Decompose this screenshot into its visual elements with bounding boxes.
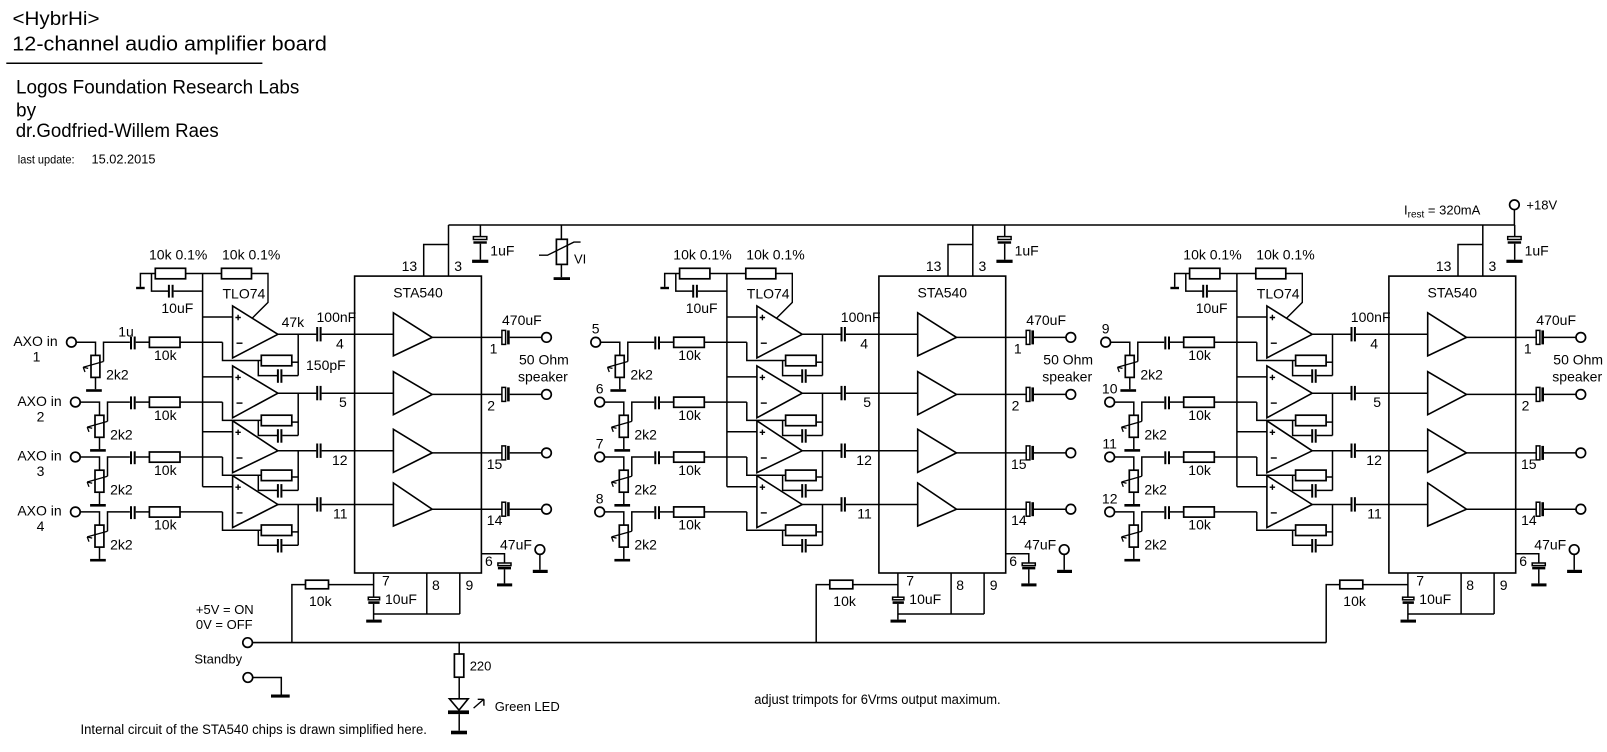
svg-text:11: 11	[1367, 506, 1382, 522]
output terminal 10	[1576, 390, 1586, 400]
svg-text:VI: VI	[574, 252, 586, 267]
op-amp 2 minus marker	[237, 402, 243, 404]
ground for trimpot channel 9	[1120, 389, 1136, 392]
svg-text:8: 8	[596, 490, 604, 506]
wire 47k to output node op-amp 2	[292, 421, 298, 423]
svg-text:4: 4	[1370, 335, 1378, 351]
bias bus wire block 2	[726, 274, 728, 487]
svg-text:10uF: 10uF	[686, 300, 718, 316]
wire 10k to inverting input channel 1	[180, 341, 223, 343]
svg-text:10uF: 10uF	[161, 300, 193, 316]
wire STA540 output 10	[1467, 393, 1537, 395]
output terminal 1	[542, 333, 552, 343]
wire noninverting input op-amp 8	[727, 486, 757, 488]
svg-text:10k 0.1%: 10k 0.1%	[1183, 247, 1241, 263]
wire 100nF to STA540 input 2	[322, 392, 394, 394]
wire input 9 to trimpot	[1111, 342, 1130, 355]
op-amp 3 minus marker	[237, 457, 243, 459]
svg-text:100nF: 100nF	[841, 309, 881, 325]
input terminal 7	[595, 452, 605, 462]
capacitor 1uF rail block 3	[1508, 225, 1521, 260]
wire 470uF to output terminal 10	[1544, 393, 1576, 395]
capacitor 10uF pin7 block 3	[1403, 597, 1414, 619]
op-amp 4 triangle	[233, 476, 278, 528]
ground for 47uF block 1	[497, 583, 512, 586]
wire trimpot wiper channel 10	[1142, 402, 1164, 421]
STA540 internal amp 2 triangle	[393, 372, 432, 415]
op-amp 1 minus marker	[237, 342, 243, 344]
svg-text:1: 1	[33, 348, 41, 364]
wire feedback vertical op-amp 4	[297, 505, 299, 546]
svg-text:10k: 10k	[1343, 593, 1367, 609]
wire op-amp 7 output to 100nF	[802, 450, 841, 452]
wire noninverting input op-amp 5	[727, 316, 757, 318]
input terminal 4	[71, 507, 81, 517]
wire 1u to 10k channel 5	[660, 341, 674, 343]
wire input 1 to trimpot	[77, 342, 96, 355]
wire noninverting input op-amp 6	[727, 376, 757, 378]
svg-text:10k: 10k	[678, 462, 702, 478]
output terminal 7	[1066, 448, 1076, 458]
capacitor 10uF pin7 block 2	[893, 597, 904, 619]
svg-text:10k: 10k	[1188, 407, 1212, 423]
output terminal 8	[1066, 504, 1076, 514]
op-amp 5 minus marker	[761, 342, 767, 344]
wire 470uF to output terminal 12	[1544, 508, 1576, 510]
svg-text:50 Ohm: 50 Ohm	[1043, 352, 1093, 368]
wire 10k to inverting input channel 12	[1214, 511, 1257, 513]
wire 10k B to op-amp 1 noninverting block 2	[776, 274, 793, 319]
ground tick for bias divider block 3	[1170, 287, 1179, 289]
wire 1u to 10k channel 2	[136, 401, 150, 403]
resistor 10k input channel 7	[674, 452, 705, 462]
wire 100nF to STA540 input 6	[846, 392, 918, 394]
op-amp 7 minus marker	[761, 457, 767, 459]
input terminal 12	[1105, 507, 1115, 517]
svg-text:13: 13	[402, 258, 418, 274]
speaker return terminal block 3	[1569, 545, 1579, 555]
svg-text:6: 6	[485, 553, 493, 569]
resistor 10k input channel 3	[149, 452, 180, 462]
svg-text:470uF: 470uF	[1026, 312, 1066, 328]
trimpot 2k2 channel 9	[1118, 355, 1138, 389]
STA540 internal amp 1 triangle	[393, 313, 432, 356]
output terminal 12	[1576, 504, 1586, 514]
capacitor 470uF output 5	[1026, 330, 1034, 344]
capacitor 150pF feedback op-amp 2	[258, 420, 298, 442]
STA540 internal amp 4 triangle	[393, 483, 432, 526]
ground for LED	[451, 731, 467, 735]
resistor 10k standby block 1	[306, 580, 329, 589]
ground for 1uF rail block 3	[1506, 260, 1522, 263]
wire 10k to inverting input channel 6	[704, 401, 747, 403]
wire noninverting input op-amp 7	[727, 431, 757, 433]
svg-text:Green LED: Green LED	[495, 699, 560, 714]
ground tick for bias divider block 2	[660, 287, 669, 289]
wire trimpot wiper channel 11	[1142, 457, 1164, 476]
svg-text:4: 4	[860, 335, 868, 351]
svg-text:150pF: 150pF	[306, 357, 346, 373]
svg-text:47k: 47k	[282, 314, 306, 330]
wire 100nF to STA540 input 10	[1356, 392, 1428, 394]
wire inverting jog channel 11	[1257, 457, 1296, 475]
wire feedback vertical op-amp 8	[822, 505, 824, 546]
svg-text:2k2: 2k2	[634, 427, 657, 443]
wire trimpot wiper channel 6	[632, 402, 654, 421]
bias bus wire block 3	[1236, 274, 1238, 487]
svg-text:TLO74: TLO74	[747, 286, 790, 302]
resistor 47k feedback op-amp 9	[1296, 355, 1327, 366]
resistor 10k standby block 2	[830, 580, 853, 589]
svg-text:10uF: 10uF	[909, 591, 941, 607]
capacitor 1u channel 4	[131, 506, 135, 519]
svg-text:STA540: STA540	[1428, 285, 1478, 301]
svg-text:speaker: speaker	[1552, 369, 1602, 385]
capacitor 100nF channel 8	[842, 497, 845, 511]
STA540 internal amp 12 triangle	[1428, 483, 1467, 526]
STA540 internal amp 5 triangle	[918, 313, 957, 356]
svg-text:2k2: 2k2	[634, 536, 657, 552]
wire 1u to 10k channel 7	[660, 456, 674, 458]
wire feedback vertical op-amp 7	[822, 451, 824, 491]
wire input 2 to trimpot	[81, 402, 100, 415]
svg-text:2k2: 2k2	[634, 482, 657, 498]
wire feedback vertical op-amp 2	[297, 393, 299, 435]
resistor R 10k 0.1% A block 2	[680, 268, 710, 279]
capacitor 150pF feedback op-amp 10	[1293, 420, 1333, 442]
svg-text:470uF: 470uF	[1536, 312, 1576, 328]
svg-text:5: 5	[1373, 394, 1381, 410]
wire 10k to inverting input channel 8	[704, 511, 747, 513]
op-amp 3 plus marker	[235, 430, 240, 435]
svg-text:AXO in: AXO in	[13, 333, 57, 349]
trimpot 2k2 channel 12	[1122, 525, 1142, 559]
resistor R 10k 0.1% A block 1	[155, 268, 185, 279]
ground for 47uF block 2	[1021, 583, 1036, 586]
wire input 4 to trimpot	[81, 512, 100, 525]
op-amp 11 minus marker	[1271, 457, 1277, 459]
wire 47k to output node op-amp 7	[816, 476, 822, 478]
op-amp 11 plus marker	[1270, 430, 1275, 435]
wire 10k standby to standby rail block 3	[1326, 585, 1340, 643]
wire 10k B to op-amp 1 noninverting block 3	[1286, 274, 1303, 319]
wire feedback vertical op-amp 5	[822, 334, 824, 375]
STA540 internal amp 6 triangle	[918, 372, 957, 415]
svg-text:10k 0.1%: 10k 0.1%	[1256, 247, 1314, 263]
wire op-amp 3 output to 100nF	[278, 450, 317, 452]
wire STA540 output 4	[432, 508, 502, 510]
capacitor 150pF feedback op-amp 3	[258, 475, 298, 497]
svg-text:14: 14	[1521, 512, 1537, 528]
wire trimpot wiper channel 5	[628, 342, 654, 361]
pin 3 wire block 3	[1482, 225, 1484, 276]
svg-text:STA540: STA540	[393, 285, 443, 301]
wire 1u to 10k channel 8	[660, 511, 674, 513]
capacitor 470uF output 12	[1536, 502, 1544, 516]
wire feedback vertical op-amp 1	[297, 334, 299, 375]
wire 100nF to STA540 input 4	[322, 504, 394, 506]
op-amp 2 plus marker	[235, 375, 240, 380]
ground for 47uF block 3	[1531, 583, 1546, 586]
op-amp 10 triangle	[1267, 366, 1312, 418]
op-amp 10 plus marker	[1270, 375, 1275, 380]
wire 1u to 10k channel 3	[136, 456, 150, 458]
resistor 47k feedback op-amp 8	[786, 525, 817, 536]
ground tick for bias divider block 1	[136, 287, 145, 289]
ground for trimpot channel 7	[614, 504, 630, 507]
svg-text:7: 7	[1416, 573, 1424, 589]
wire trimpot wiper channel 1	[104, 342, 130, 361]
wire 470uF to output terminal 2	[510, 393, 542, 395]
svg-text:TLO74: TLO74	[1257, 286, 1300, 302]
op-amp 3 triangle	[233, 421, 278, 473]
ground for speaker return block 3	[1567, 570, 1582, 573]
trimpot 2k2 channel 2	[87, 415, 107, 449]
wire input 5 to trimpot	[601, 342, 620, 355]
wire 10k to inverting input channel 11	[1214, 456, 1257, 458]
resistor 10k standby block 3	[1340, 580, 1363, 589]
capacitor 100nF channel 9	[1352, 327, 1355, 341]
wire 1u to 10k channel 11	[1170, 456, 1184, 458]
svg-text:5: 5	[339, 394, 347, 410]
resistor 47k feedback op-amp 12	[1296, 525, 1327, 536]
ground for 10uF pin7 block 3	[1401, 620, 1417, 623]
capacitor 470uF output 3	[502, 446, 510, 460]
svg-text:7: 7	[906, 573, 914, 589]
capacitor 100nF channel 1	[317, 327, 320, 341]
svg-text:3: 3	[1489, 258, 1497, 274]
pin 9 wire block 2	[983, 573, 985, 614]
standby input terminal	[243, 638, 253, 648]
svg-text:12: 12	[1102, 490, 1118, 506]
capacitor 150pF feedback op-amp 9	[1293, 361, 1333, 383]
wire LED to ground	[458, 714, 460, 731]
trimpot 2k2 channel 3	[87, 470, 107, 504]
wire 10k B to op-amp 1 noninverting block 1	[252, 274, 269, 319]
svg-text:15: 15	[1011, 456, 1027, 472]
op-amp 8 triangle	[757, 476, 802, 528]
speaker return terminal block 2	[1059, 545, 1069, 555]
wire 10k standby to standby rail block 1	[292, 585, 306, 643]
wire bias divider ground hook block 1	[140, 274, 155, 287]
resistor 10k input channel 8	[674, 507, 705, 517]
wire inverting jog channel 1	[223, 342, 262, 360]
STA540 internal amp 9 triangle	[1428, 313, 1467, 356]
capacitor 1u channel 2	[131, 396, 135, 409]
op-amp 6 minus marker	[761, 402, 767, 404]
svg-text:2k2: 2k2	[110, 536, 133, 552]
svg-text:2k2: 2k2	[1144, 536, 1167, 552]
svg-text:10uF: 10uF	[1196, 300, 1228, 316]
wire input 12 to trimpot	[1115, 512, 1134, 525]
wire inverting jog channel 3	[223, 457, 262, 475]
resistor 10k input channel 6	[674, 397, 705, 407]
svg-text:10k: 10k	[154, 347, 178, 363]
svg-text:11: 11	[1102, 436, 1117, 452]
trimpot 2k2 channel 1	[83, 355, 103, 389]
output terminal 2	[542, 390, 552, 400]
capacitor 47uF block 1	[498, 563, 511, 583]
wire op-amp 5 output to 100nF	[802, 333, 841, 335]
wire op-amp 9 output to 100nF	[1312, 333, 1351, 335]
wire 47k to output node op-amp 12	[1326, 531, 1332, 533]
op-amp 12 triangle	[1267, 476, 1312, 528]
op-amp 12 plus marker	[1270, 485, 1275, 490]
svg-text:8: 8	[956, 577, 964, 593]
wire 1u to 10k channel 12	[1170, 511, 1184, 513]
LED D1 Green	[448, 699, 469, 714]
svg-text:15.02.2015: 15.02.2015	[92, 152, 156, 166]
svg-text:by: by	[16, 101, 37, 122]
input terminal 2	[71, 397, 81, 407]
STA540 internal amp 10 triangle	[1428, 372, 1467, 415]
wire STA540 output 7	[957, 452, 1027, 454]
svg-text:12: 12	[332, 452, 348, 468]
wire op-amp 11 output to 100nF	[1312, 450, 1351, 452]
wire 10k to inverting input channel 9	[1214, 341, 1257, 343]
output terminal 9	[1576, 333, 1586, 343]
svg-text:14: 14	[487, 512, 503, 528]
wire inverting jog channel 5	[747, 342, 786, 360]
wire trimpot wiper channel 2	[108, 402, 130, 421]
input terminal 6	[595, 397, 605, 407]
svg-text:dr.Godfried-Willem Raes: dr.Godfried-Willem Raes	[16, 121, 219, 142]
resistor R 10k 0.1% B block 3	[1256, 268, 1286, 279]
op-amp 4 minus marker	[237, 512, 243, 514]
capacitor 100nF channel 7	[842, 444, 845, 458]
capacitor 150pF feedback op-amp 12	[1293, 530, 1333, 552]
wire inverting jog channel 9	[1257, 342, 1296, 360]
ground for trimpot channel 8	[614, 559, 630, 562]
capacitor 47uF block 3	[1532, 563, 1545, 583]
wire op-amp 10 output to 100nF	[1312, 392, 1351, 394]
wire 100nF to STA540 input 12	[1356, 504, 1428, 506]
wire 470uF to output terminal 9	[1544, 336, 1576, 338]
svg-text:2k2: 2k2	[110, 427, 133, 443]
input terminal 9	[1101, 337, 1111, 347]
capacitor 470uF output 10	[1536, 387, 1544, 401]
svg-text:adjust trimpots for 6Vrms outp: adjust trimpots for 6Vrms output maximum…	[754, 692, 1000, 707]
capacitor 1u channel 7	[655, 451, 659, 464]
resistor 220	[454, 654, 463, 677]
trimpot 2k2 channel 7	[612, 470, 632, 504]
wire 47k to output node op-amp 9	[1326, 361, 1332, 363]
wire 10k standby to pin 7 block 3	[1363, 584, 1408, 586]
wire input 7 to trimpot	[605, 457, 624, 470]
svg-text:12-channel audio amplifier boa: 12-channel audio amplifier board	[12, 33, 327, 55]
wire trimpot wiper channel 12	[1142, 512, 1164, 531]
wire 47k to output node op-amp 5	[816, 361, 822, 363]
resistor 10k input channel 10	[1184, 397, 1215, 407]
svg-text:3: 3	[454, 258, 462, 274]
resistor R 10k 0.1% B block 1	[222, 268, 252, 279]
capacitor 150pF feedback op-amp 11	[1293, 475, 1333, 497]
capacitor 1u channel 11	[1165, 451, 1169, 464]
wire feedback vertical op-amp 12	[1332, 505, 1334, 546]
capacitor 150pF feedback op-amp 7	[783, 475, 823, 497]
wire op-amp 12 output to 100nF	[1312, 504, 1351, 506]
trimpot 2k2 channel 11	[1122, 470, 1142, 504]
capacitor 150pF feedback op-amp 8	[783, 530, 823, 552]
resistor 47k feedback op-amp 6	[786, 415, 817, 426]
wire standby ground terminal	[253, 678, 281, 695]
resistor 47k feedback op-amp 3	[261, 470, 292, 481]
wire 470uF to output terminal 7	[1034, 452, 1066, 454]
resistor 47k feedback op-amp 10	[1296, 415, 1327, 426]
ground for 1uF rail block 1	[472, 260, 488, 263]
resistor 10k input channel 1	[149, 337, 180, 347]
capacitor 100nF channel 10	[1352, 386, 1355, 400]
capacitor 1uF rail block 2	[998, 225, 1011, 260]
wire inverting jog channel 7	[747, 457, 786, 475]
wire 10k to inverting input channel 2	[180, 401, 223, 403]
resistor 10k input channel 5	[674, 337, 705, 347]
svg-text:11: 11	[857, 506, 872, 522]
op-amp 8 minus marker	[761, 512, 767, 514]
capacitor 100nF channel 4	[317, 497, 320, 511]
svg-text:10: 10	[1102, 381, 1118, 397]
capacitor 100nF channel 6	[842, 386, 845, 400]
wire STA540 output 8	[957, 508, 1027, 510]
wire input 10 to trimpot	[1115, 402, 1134, 415]
svg-text:2: 2	[37, 408, 45, 424]
pin 6 wire block 3	[1516, 554, 1539, 563]
wire divider node block 2	[710, 273, 746, 275]
output terminal 5	[1066, 333, 1076, 343]
svg-text:12: 12	[1366, 452, 1382, 468]
wire STA540 output 12	[1467, 508, 1537, 510]
capacitor 470uF output 4	[502, 502, 510, 516]
op-amp 7 triangle	[757, 421, 802, 473]
svg-text:2k2: 2k2	[110, 482, 133, 498]
svg-text:15: 15	[487, 456, 503, 472]
pin 9 wire block 3	[1493, 573, 1495, 614]
ground for trimpot channel 12	[1124, 559, 1140, 562]
input terminal 8	[595, 507, 605, 517]
wire STA540 output 3	[432, 452, 502, 454]
wire noninverting input op-amp 10	[1237, 376, 1267, 378]
STA540 internal amp 3 triangle	[393, 429, 432, 472]
wire STA540 output 1	[432, 336, 502, 338]
capacitor 100nF channel 3	[317, 444, 320, 458]
op-amp 8 plus marker	[760, 485, 765, 490]
wire input 3 to trimpot	[81, 457, 100, 470]
op-amp 5 triangle	[757, 306, 802, 358]
ground for varistor VI	[554, 277, 570, 280]
wire op-amp 4 output to 100nF	[278, 504, 317, 506]
wire noninverting input op-amp 2	[203, 376, 233, 378]
capacitor 470uF output 9	[1536, 330, 1544, 344]
wire STA540 output 11	[1467, 452, 1537, 454]
svg-text:12: 12	[856, 452, 872, 468]
op-amp 9 triangle	[1267, 306, 1312, 358]
wire trimpot wiper channel 8	[632, 512, 654, 531]
wire 1u to 10k channel 9	[1170, 341, 1184, 343]
svg-text:7: 7	[596, 436, 604, 452]
svg-text:10k: 10k	[833, 593, 857, 609]
resistor R 10k 0.1% A block 3	[1190, 268, 1220, 279]
wire 10k standby to standby rail block 2	[816, 585, 830, 643]
output terminal 6	[1066, 390, 1076, 400]
svg-text:1: 1	[1014, 340, 1022, 356]
wire trimpot wiper channel 3	[108, 457, 130, 476]
wire 47k to output node op-amp 6	[816, 421, 822, 423]
svg-text:2: 2	[1012, 397, 1020, 413]
op-amp 7 plus marker	[760, 430, 765, 435]
op-amp 6 plus marker	[760, 375, 765, 380]
svg-text:10k: 10k	[154, 407, 178, 423]
capacitor 10uF bias block 3	[1186, 274, 1237, 298]
